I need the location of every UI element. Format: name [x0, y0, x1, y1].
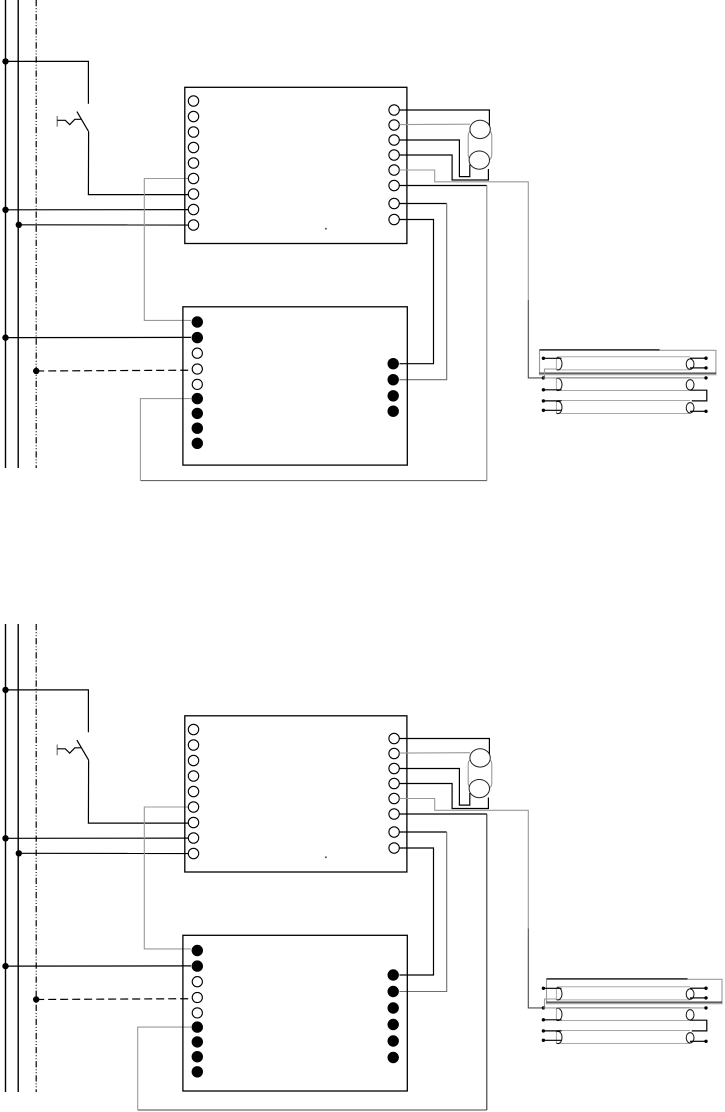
- ballast U1 right pins 10-17: [389, 105, 399, 225]
- wire: [400, 204, 447, 380]
- node on L1 (switch feed): [2, 687, 8, 693]
- node on L1 (lower box): [2, 334, 8, 340]
- wire loop bottom: [138, 1109, 487, 1111]
- switch S1 (top): [57, 112, 88, 132]
- lamp fixture outline: [547, 979, 723, 1003]
- fluorescent tube LAMP1: [557, 986, 690, 988]
- wire: [543, 400, 561, 402]
- switch S1 (bottom): [57, 740, 88, 760]
- wire switch to ballast pin L7: [88, 132, 188, 195]
- wire: [528, 300, 543, 378]
- wire: [528, 929, 543, 1008]
- wire L1 to switch: [6, 690, 89, 732]
- wire LAMP2 bottom-right to LAMP3 top-right: [690, 390, 707, 401]
- LAMP1 pins right: [704, 987, 707, 990]
- module U2 left pins 1-9: [192, 945, 203, 1078]
- wire L1 to switch: [6, 61, 89, 103]
- wire switch to ballast pin L7: [88, 760, 188, 823]
- wire (black top edge segment): [547, 978, 688, 980]
- wire pin10 to C1 top: [399, 739, 489, 755]
- module U2 right pins: [388, 358, 399, 417]
- node on L1: [2, 207, 8, 213]
- wire L1 to ballast pin L8: [6, 837, 189, 839]
- ballast U1 box (top): [185, 87, 407, 243]
- wire pin15 loop (right): [399, 185, 487, 187]
- wire pin17 to module right pin 1: [399, 220, 433, 364]
- module U2 box (top): [183, 307, 407, 465]
- wire pin17 to module right pin 1: [399, 848, 433, 975]
- wire: [543, 1019, 561, 1021]
- power rail L2 (top): [17, 0, 19, 468]
- LAMP3 pin bottom-right: [690, 1040, 706, 1042]
- LAMP1 pins right: [704, 357, 707, 360]
- wire pin13 to C1 bottom-right: [399, 784, 488, 809]
- wire: [543, 1039, 561, 1041]
- wire loop left to module pin 6: [140, 399, 191, 481]
- capacitor unit C1 (bottom): [468, 757, 492, 790]
- module U2 left pins 1-9: [192, 316, 203, 449]
- module U2 box (bottom): [183, 935, 407, 1091]
- LAMP3 pins left: [542, 1029, 545, 1032]
- wire: [543, 987, 561, 989]
- node junction (feed): [542, 376, 545, 379]
- wire L1 to module pin 2: [6, 965, 192, 967]
- LAMP1 pin top-left: [542, 357, 545, 360]
- wire pin12 to C1 bottom: [399, 769, 470, 806]
- LAMP3 pins left: [542, 399, 545, 402]
- wire (black line above bottom edge): [540, 372, 716, 374]
- wire: [486, 814, 488, 1110]
- wire pin10 to C1 top: [399, 110, 489, 126]
- wire pin12 to C1 bottom: [399, 140, 470, 177]
- fluorescent tube LAMP1: [557, 356, 690, 358]
- wire pin13 to C1 bottom-right: [399, 155, 488, 180]
- wire LAMP2 bottom-right to LAMP3 top-right: [690, 1020, 707, 1031]
- LAMP2 pin bottom-left: [542, 1018, 545, 1021]
- node on L1 (switch feed): [2, 58, 8, 64]
- wire ballast pin L6 to module pin 1: [144, 807, 191, 949]
- node on PE rail: [33, 368, 39, 374]
- capacitor C1 lower cell: [469, 780, 489, 798]
- LAMP3 pin bottom-right: [690, 410, 706, 412]
- wire: [690, 997, 706, 999]
- node on L2: [16, 850, 22, 856]
- dashed wire PE to module pin 4: [36, 998, 191, 1001]
- dashed wire PE to module pin 4: [36, 369, 191, 372]
- wire (black top edge segment): [540, 349, 660, 351]
- fluorescent tube LAMP3: [557, 399, 690, 401]
- wire pin15 loop (right): [399, 813, 487, 815]
- label dot: [325, 228, 327, 230]
- capacitor C1 lower cell: [469, 151, 489, 169]
- wire pin14 to lamp junction: [399, 799, 528, 929]
- ballast U1 left pins 1-9: [188, 724, 198, 858]
- LAMP2 pin bottom-left: [542, 388, 545, 391]
- wire L2 to ballast pin L9: [19, 224, 189, 226]
- wire ballast pin L6 to module pin 1: [144, 179, 191, 321]
- node on L2: [16, 222, 22, 228]
- LAMP1 pin top-left: [542, 987, 545, 990]
- capacitor C1 upper cell: [470, 120, 490, 138]
- wire: [486, 186, 488, 481]
- earth/dash-dot rail PE (bottom): [35, 624, 37, 1092]
- wire pin11 to C1 left: [399, 123, 470, 125]
- wire: [690, 367, 706, 369]
- wire pin11 to C1 left: [399, 752, 470, 754]
- earth/dash-dot rail PE (top): [35, 0, 37, 468]
- node on L1: [2, 835, 8, 841]
- wire pin16 to module right pin 2: [399, 203, 446, 205]
- wire: [543, 1030, 561, 1032]
- node on L1 (lower box): [2, 963, 8, 969]
- power rail L2 (bottom): [17, 624, 19, 1092]
- wire: [690, 987, 706, 989]
- wire loop left to module pin 6: [138, 1027, 191, 1110]
- wire L2 to ballast pin L9: [19, 852, 189, 854]
- wire LAMP1 bottom-left to junction: [545, 999, 558, 1008]
- wire loop bottom: [140, 480, 486, 482]
- wire: [690, 357, 706, 359]
- capacitor unit C1 (top): [468, 129, 492, 162]
- capacitor C1 upper cell: [470, 749, 490, 767]
- wire LAMP1 bottom-left to junction: [545, 369, 558, 378]
- fluorescent tube LAMP2: [557, 1006, 690, 1008]
- power rail L1 (top): [5, 0, 7, 468]
- wire L1 to module pin 2: [6, 336, 192, 338]
- wire pin16 to module right pin 2: [399, 831, 446, 833]
- fluorescent tube LAMP2: [557, 376, 690, 378]
- wire: [543, 357, 561, 359]
- wire junction to LAMP2 top-right pin: [543, 1007, 706, 1009]
- wire junction to LAMP2 top-right pin: [543, 377, 706, 379]
- ballast U1 box (bottom): [185, 716, 407, 872]
- ballast U1 right pins 10-17: [389, 733, 399, 853]
- wire L1 to ballast pin L8: [6, 209, 189, 211]
- wire: [400, 832, 447, 992]
- label dot: [325, 856, 327, 858]
- wire: [543, 409, 561, 411]
- wire (black line above bottom edge): [547, 1001, 723, 1003]
- wire pin14 to lamp junction: [399, 170, 528, 300]
- node junction (feed): [542, 1006, 545, 1009]
- module U2 right pins: [388, 969, 399, 1063]
- wire: [543, 389, 561, 391]
- lamp fixture outline: [540, 350, 716, 374]
- ballast U1 left pins 1-9: [188, 96, 198, 230]
- node on PE rail: [33, 996, 39, 1002]
- power rail L1 (bottom): [5, 624, 7, 1092]
- fluorescent tube LAMP3: [557, 1029, 690, 1031]
